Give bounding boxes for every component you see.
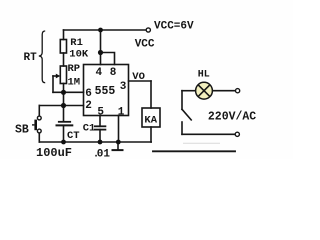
svg-text:VCC=6V: VCC=6V: [154, 20, 194, 32]
svg-text:CT: CT: [67, 130, 80, 142]
svg-text:220V/AC: 220V/AC: [208, 110, 256, 123]
svg-text:8: 8: [110, 67, 117, 79]
svg-text:RP: RP: [68, 63, 81, 75]
svg-text:6: 6: [85, 88, 92, 100]
svg-text:.01: .01: [93, 148, 111, 159]
svg-text:10K: 10K: [69, 48, 89, 60]
svg-text:RT: RT: [24, 52, 38, 64]
svg-text:VCC: VCC: [135, 39, 155, 51]
svg-text:1M: 1M: [68, 76, 81, 88]
svg-text:VO: VO: [132, 71, 145, 83]
svg-text:2: 2: [85, 100, 92, 112]
svg-text:100uF: 100uF: [36, 146, 72, 159]
svg-text:1: 1: [118, 106, 125, 118]
svg-text:555: 555: [95, 85, 116, 98]
svg-text:C1: C1: [83, 122, 96, 134]
svg-text:4: 4: [96, 67, 103, 79]
svg-text:KA: KA: [144, 114, 157, 126]
svg-text:SB: SB: [15, 124, 29, 137]
svg-text:HL: HL: [198, 69, 210, 80]
svg-text:3: 3: [120, 81, 127, 93]
svg-text:5: 5: [97, 106, 104, 118]
